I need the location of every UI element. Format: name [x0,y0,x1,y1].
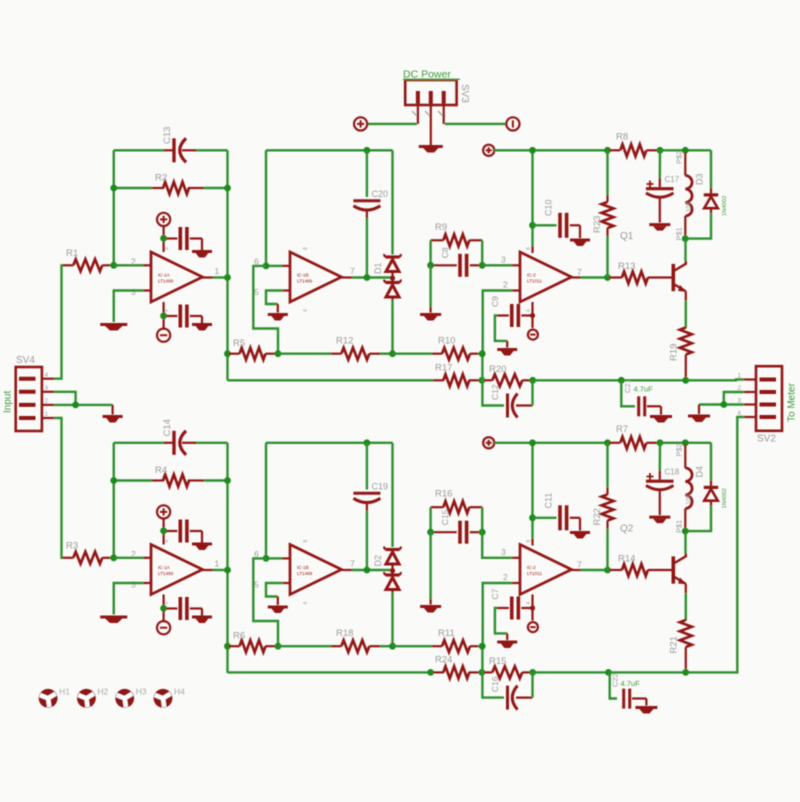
svg-text:8: 8 [303,540,309,543]
svg-text:C14: C14 [162,419,173,436]
SV4 pin3 wire [42,392,76,405]
resistor R20 [484,364,530,386]
svg-text:C18: C18 [665,468,680,477]
svg-text:IC-2: IC-2 [527,273,536,278]
wire rail chA [494,149,609,151]
svg-text:5: 5 [254,287,259,297]
svg-text:R15: R15 [489,656,506,667]
wire stage2 frame left vertical chB [265,443,267,559]
wire RC left to ground chA [429,265,431,312]
supply + symbol rail chB [483,437,494,448]
diode D3 [687,150,728,238]
wire row1 right chB [393,645,433,647]
supply + symbol rail chA [483,145,494,156]
junction pin2-row1 chA [479,350,486,357]
svg-text:8: 8 [164,540,170,543]
svg-text:D1: D1 [373,262,383,274]
junction rail V+ chB [529,439,536,446]
svg-text:H4: H4 [174,687,185,697]
svg-text:R10: R10 [438,336,455,347]
svg-text:4: 4 [303,602,309,605]
svg-text:3: 3 [131,580,136,590]
wire pin5 to ground chA [266,291,290,313]
svg-text:LT1011: LT1011 [527,279,542,284]
op-amp IC-1A LT1469 chA [131,247,220,312]
wire row2 right chA [533,379,687,381]
capacitor C22 4.7uF [608,672,646,708]
junction V+ bypass chB [160,527,167,534]
connector SV4 Input header [3,355,49,431]
junction rail R23 chB [604,439,611,446]
wire pin2 chB [114,557,151,559]
wire emitter chB [685,584,687,620]
ground C21 [650,417,672,423]
ground C9 [497,350,517,356]
junction C21 tap [618,377,625,384]
junction C22 tap [605,669,612,676]
svg-text:4: 4 [303,309,309,312]
svg-text:IC-1B: IC-1B [297,565,309,570]
wire V- comparator chB [531,595,533,621]
supply + symbol op-amp chA [157,213,170,252]
junction SV2 ground node [720,401,727,408]
svg-text:C16: C16 [490,676,500,692]
wire V- comparator chA [531,302,533,328]
wire V+ comparator chB [531,443,533,546]
resistor R4 [114,465,228,487]
resistor R6 [229,631,277,653]
junction emitter-row chA [682,377,689,384]
wire C-loop right vertical x=227 chA [226,150,228,380]
wire RC loop verticals chA [431,240,483,265]
wire op-amp1 output chA [203,276,228,278]
svg-text:R20: R20 [489,364,506,375]
svg-text:LT1011: LT1011 [527,571,542,576]
junction output-C cap chA [364,274,371,281]
resistor R5 [229,338,277,360]
svg-text:R6: R6 [233,631,245,642]
wire row1 mid chA [278,353,331,355]
svg-text:3: 3 [131,287,136,297]
svg-text:8: 8 [303,247,309,250]
svg-text:Q2: Q2 [620,524,634,535]
connector SV3 DC Power header [403,69,470,117]
wire pin6 chA [266,265,290,267]
wire emitter chA [685,291,687,327]
svg-text:R17: R17 [435,363,452,374]
svg-text:C10: C10 [544,199,554,216]
junction diode midpoint chA [390,276,395,281]
supply - symbol op-amp chA [157,302,170,342]
junction RC left chB [427,529,434,536]
SV3 pin 3 wire [444,104,506,124]
wire pin3 chB [114,583,151,615]
junction rail pot chB [682,439,689,446]
supply symbol -15V at SV3 [506,117,519,130]
SV2 pin4 wire to channel B [687,417,756,672]
junction rail C17 chA [657,147,664,154]
wire C-loop top chA [114,149,228,151]
ground pin5 chB [268,607,288,613]
ground pin3 chA [100,325,127,331]
junction SV4 ground node [72,402,79,409]
junction C9 tap chA [530,313,535,318]
svg-text:2: 2 [131,257,136,267]
ground C7 [497,642,517,648]
junction pin2-row1 chB [479,643,486,650]
capacitor C13 [162,127,196,163]
op-amp IC-2 LT1011 chA [501,247,582,312]
wire V+ comparator chA [531,150,533,253]
svg-text:R13: R13 [618,261,635,272]
SV2 pin3 wire [699,405,756,415]
junction row1 diode rail chB [389,643,396,650]
junction rail pot chA [682,147,689,154]
ground C22 [635,708,657,714]
wire comparator output chB [572,569,606,571]
junction input node chA [110,262,117,269]
junction RC right chA [479,262,486,269]
capacitor C16 [482,672,533,709]
potentiometer P1 chA [675,151,693,241]
ground C10 [570,240,590,246]
svg-text:IC-1B: IC-1B [297,273,309,278]
svg-text:C21: C21 [623,379,632,393]
resistor R19 [669,327,692,380]
junction rail R23 chA [604,147,611,154]
wire row1 mid chB [278,645,331,647]
wire row2 long left chB [228,671,434,673]
resistor R21 [669,620,692,673]
resistor R18 [331,628,393,652]
svg-text:IC-1A: IC-1A [158,565,171,570]
svg-text:R18: R18 [336,628,353,639]
bypass capacitor top chA [166,227,202,250]
svg-text:R19: R19 [669,344,680,361]
wire feedback loop chB [253,558,278,646]
wire RC loop verticals chB [431,507,483,532]
svg-text:R21: R21 [669,636,680,653]
capacitor C14 [162,419,196,455]
supply symbol +15V at SV3 [354,117,367,130]
junction C9 tap chB [530,605,535,610]
junction rail C17 chB [657,439,664,446]
wire pin6 chB [266,557,290,559]
svg-text:D4: D4 [695,466,705,478]
resistor R7 [609,424,658,449]
svg-text:8: 8 [526,247,532,250]
svg-text:1N4002: 1N4002 [722,196,728,216]
wire rail right chA [660,149,711,151]
SV3 pin 2 ground wire [430,104,432,146]
wire C-loop top chB [114,442,228,444]
wire pin2 net chB [482,583,520,672]
mounting hole H4 [154,687,186,708]
wire pin3 chA [114,291,151,323]
supply - symbol op-amp chB [157,595,170,635]
junction C-loop right chA [224,185,231,192]
ground bypass top chB [192,544,212,550]
svg-text:IC-2: IC-2 [527,565,536,570]
svg-text:SV2: SV2 [757,434,776,445]
junction V+ bypass chA [160,235,167,242]
capacitor C21 4.7uF [621,379,661,416]
svg-text:C15: C15 [440,509,450,525]
svg-text:1: 1 [215,559,220,569]
supply - symbol comparator chA [528,330,538,340]
junction V- bypass chA [160,312,167,319]
svg-text:C19: C19 [372,482,389,492]
capacitor C17 [646,150,680,222]
op-amp IC-2 LT1011 chB [501,540,582,605]
svg-text:IC-1A: IC-1A [158,273,171,278]
svg-text:D3: D3 [695,173,705,185]
svg-text:C17: C17 [665,175,680,184]
svg-text:7: 7 [350,266,355,276]
capacitor C10 [533,199,581,238]
ground bypass bottom chB [192,617,212,623]
SV2 pin2 wire [724,392,756,405]
mounting hole H3 [115,687,147,708]
supply - symbol comparator chB [528,622,538,632]
junction input node chB [110,554,117,561]
SV2 pin1 wire [687,378,756,381]
svg-text:C11: C11 [544,493,554,509]
wire op-amp1 output chB [203,569,228,571]
op-amp IC-1B LT1469 chA [254,247,355,312]
wire pin2 net chA [482,291,520,381]
svg-text:2: 2 [503,280,508,290]
junction C-loop right chB [224,477,231,484]
svg-text:2: 2 [131,549,136,559]
svg-text:1: 1 [215,266,220,276]
junction pot bottom chA [682,235,689,242]
junction stage2 top chB [364,439,371,446]
diode D4 [687,443,728,531]
junction V- bypass chB [160,605,167,612]
capacitor C15 [432,509,480,543]
svg-text:4: 4 [164,602,170,605]
wire feedback loop chA [253,266,278,354]
junction output chA [604,274,611,281]
junction pin6 chA [263,263,270,270]
svg-text:7: 7 [577,267,582,277]
junction output chB [604,567,611,574]
svg-text:4.7uF: 4.7uF [634,385,654,394]
SV4 pin4 wire to R1 [42,265,63,378]
ground SV4 [103,417,123,423]
op-amp IC-1B LT1469 chB [254,540,355,605]
wire diode rail bottom chB [391,593,393,647]
mounting hole H2 [77,687,109,708]
wire stage2 frame left vertical chA [265,150,267,266]
ground for SV3 [419,147,443,153]
wire row1 right chA [393,353,433,355]
ground C18 [649,517,670,523]
svg-text:4.7uF: 4.7uF [621,679,641,688]
svg-text:4: 4 [164,309,170,312]
ground bypass top chA [192,252,212,258]
svg-text:R16: R16 [435,489,452,500]
resistor R22 [592,443,614,570]
capacitor C7 [490,588,533,640]
ground RC loop chA [420,315,441,321]
svg-text:R11: R11 [438,628,455,639]
resistor R17 [433,363,479,387]
junction C10 tap chA [529,222,536,229]
junction output-C cap chB [364,567,371,574]
supply + symbol op-amp chB [157,505,170,544]
wire row2 right chB [533,671,687,673]
ground C17 [649,225,670,231]
resistor R16 [431,489,483,514]
svg-text:SV3: SV3 [459,84,470,103]
junction stage2 top chA [364,147,371,154]
junction row1 R5out chA [275,350,282,357]
wire rail chB [494,442,609,444]
svg-text:C22: C22 [611,673,620,687]
resistor R2 [114,173,228,195]
junction C10 tap chB [529,514,536,521]
svg-text:4: 4 [526,309,532,312]
capacitor C11 [533,493,581,531]
svg-text:H1: H1 [59,687,70,697]
svg-text:LT1469: LT1469 [297,571,313,576]
svg-text:R12: R12 [336,336,353,347]
ground pin3 chB [100,617,127,623]
mounting hole H1 [39,687,71,708]
svg-text:C12: C12 [490,384,500,400]
bypass capacitor top chB [166,520,202,543]
resistor R12 [331,336,393,360]
svg-text:R9: R9 [435,222,447,233]
svg-text:R3: R3 [66,541,78,552]
resistor R3 [62,541,114,564]
resistor R13 [609,261,672,284]
svg-text:2: 2 [503,572,508,582]
wire diode rail top chA [391,150,393,254]
wire stage2 frame top chB [266,442,393,444]
ground RC loop chB [420,607,441,613]
svg-text:Q1: Q1 [620,231,634,242]
resistor R10 [432,336,482,360]
wire diode rail top chB [391,443,393,547]
wire C-loop left vertical x=113 chA [113,150,115,265]
svg-text:R14: R14 [618,554,635,565]
capacitor C19 [353,443,388,570]
junction row2 mid chB [479,669,486,676]
wire pin3 comparator chB [482,532,520,558]
diode D1 upper [373,254,401,277]
junction diode midpoint chB [390,568,395,573]
capacitor C20 [353,150,388,277]
junction row2 after R15 [529,669,536,676]
svg-text:R24: R24 [435,655,452,666]
wire pin5 to ground chB [266,583,290,605]
wire op-amp2 output chA [342,276,393,278]
svg-text:R1: R1 [66,248,78,259]
svg-text:H3: H3 [136,687,147,697]
svg-text:P$2: P$2 [675,443,684,456]
diode D2 lower [384,572,401,594]
svg-text:To Meter: To Meter [787,382,798,422]
wire rail right chB [660,442,711,444]
resistor R9 [431,222,483,247]
svg-text:10K: 10K [687,201,693,212]
svg-text:D2: D2 [373,555,383,567]
svg-text:4: 4 [526,602,532,605]
svg-text:3: 3 [501,547,506,557]
svg-text:1N4002: 1N4002 [722,488,728,508]
resistor R8 [609,132,658,157]
junction emitter-row chB [682,669,689,676]
resistor R14 [609,554,672,577]
svg-text:R22: R22 [592,508,603,525]
junction pot bottom chB [682,528,689,535]
svg-text:P$2: P$2 [675,151,684,164]
svg-text:C7: C7 [490,588,500,599]
wire C-loop left vertical x=113 chB [113,443,115,558]
wire RC left to ground chB [429,532,431,604]
junction row2 extra chB [427,669,434,676]
junction row1 left chB [224,643,231,650]
svg-text:8: 8 [526,540,532,543]
junction op-amp1 output chA [224,274,231,281]
ground C11 [570,533,590,539]
svg-text:Input: Input [3,391,14,413]
junction C-loop left chB [110,477,117,484]
junction row1 diode rail chA [389,350,396,357]
SV4 pin2 wire [42,405,113,415]
wire pin3 comparator chA [482,264,520,266]
junction row1 R5out chB [275,643,282,650]
junction pin6 chB [263,555,270,562]
junction C-loop left chA [110,185,117,192]
junction row2 mid chA [479,377,486,384]
svg-text:C13: C13 [162,127,173,144]
svg-text:R8: R8 [616,132,628,143]
wire diode rail bottom chA [391,300,393,354]
svg-text:LT1469: LT1469 [158,279,174,284]
op-amp IC-1A LT1469 chB [131,540,220,605]
ground pin5 chA [268,315,288,321]
capacitor C18 [646,443,680,515]
junction RC right chB [479,529,486,536]
wire comparator output chA [572,276,606,278]
resistor R15 [484,656,530,678]
svg-text:7: 7 [350,559,355,569]
connector SV2 To Meter header [737,366,797,444]
transistor Q2 NPN [620,524,687,585]
svg-text:LT1469: LT1469 [297,279,313,284]
junction row2 after R20 [529,377,536,384]
svg-text:LT1469: LT1469 [158,571,174,576]
capacitor C12 [482,380,533,417]
resistor R1 [62,248,114,271]
ground bypass bottom chA [192,325,212,331]
svg-text:C20: C20 [372,189,389,199]
diode D2 upper [373,547,401,570]
wire pin2 chA [114,264,151,266]
svg-text:R4: R4 [155,465,167,476]
wire op-amp2 output chB [342,569,393,571]
svg-text:5: 5 [254,580,259,590]
SV3 pin 1 wire [368,104,418,124]
resistor R11 [432,628,482,652]
bypass capacitor bottom chB [166,597,202,620]
svg-text:SV4: SV4 [16,355,35,366]
potentiometer P1 chB [675,443,693,533]
